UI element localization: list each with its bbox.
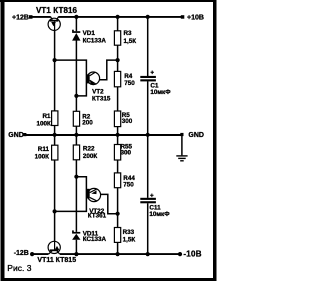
svg-text:Рис. 3: Рис. 3 <box>7 263 31 273</box>
svg-text:1,5К: 1,5К <box>124 38 137 45</box>
svg-text:-10B: -10B <box>183 250 201 259</box>
svg-text:R1: R1 <box>42 113 51 120</box>
svg-text:КС133А: КС133А <box>83 38 107 45</box>
svg-text:R11: R11 <box>38 146 50 153</box>
svg-text:+12B: +12B <box>12 14 29 21</box>
svg-text:VT2: VT2 <box>92 88 104 95</box>
svg-text:R33: R33 <box>123 229 135 236</box>
svg-text:КТ315: КТ315 <box>92 96 111 103</box>
svg-text:300: 300 <box>122 118 133 125</box>
svg-text:750: 750 <box>124 80 135 87</box>
svg-text:GND: GND <box>8 132 24 139</box>
svg-text:R3: R3 <box>124 30 133 37</box>
svg-text:200К: 200К <box>83 153 98 160</box>
svg-text:-12B: -12B <box>14 250 29 257</box>
svg-text:R22: R22 <box>83 145 95 152</box>
svg-text:VD1: VD1 <box>83 30 96 37</box>
svg-text:+: + <box>150 70 154 77</box>
svg-text:750: 750 <box>123 181 134 188</box>
svg-text:200: 200 <box>82 120 93 127</box>
svg-text:+: + <box>150 192 154 199</box>
svg-text:GND: GND <box>188 132 204 139</box>
svg-text:100К: 100К <box>36 121 51 128</box>
svg-text:КТ361: КТ361 <box>88 212 107 219</box>
svg-text:10мкФ: 10мкФ <box>149 211 170 218</box>
svg-text:300: 300 <box>121 150 132 157</box>
svg-text:VT11 КТ815: VT11 КТ815 <box>37 257 76 264</box>
svg-text:VT1 КТ816: VT1 КТ816 <box>36 6 78 15</box>
svg-text:КС133А: КС133А <box>83 236 107 243</box>
svg-text:10мкФ: 10мкФ <box>150 89 171 96</box>
svg-text:+10B: +10B <box>187 14 204 21</box>
svg-text:1,5К: 1,5К <box>123 237 136 244</box>
svg-text:100К: 100К <box>35 154 50 161</box>
